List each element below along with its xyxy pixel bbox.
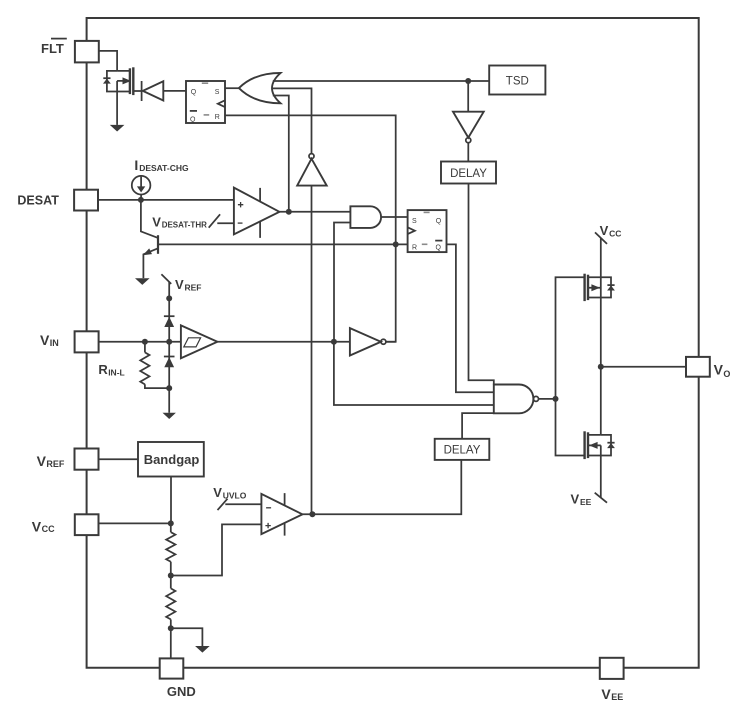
svg-text:O: O [723, 369, 730, 379]
svg-text:GND: GND [167, 684, 196, 699]
node reset junction [393, 241, 399, 247]
IC boundary box [87, 18, 699, 668]
wire DELAY2 to NAND input 4 [462, 413, 494, 439]
svg-text:DELAY: DELAY [444, 445, 481, 457]
comparator U4 DESAT [234, 188, 280, 235]
comparator U4 plus sign [238, 202, 243, 207]
wire comparator U8 output to DELAY2 [302, 460, 461, 514]
svg-text:CC: CC [42, 524, 55, 534]
node VIN signal junction [331, 339, 337, 345]
node NAND output junction [553, 396, 559, 402]
svg-text:TSD: TSD [506, 76, 529, 88]
comparator U4 minus sign [238, 222, 243, 224]
pin FLT [75, 41, 99, 63]
resistor divider R2 [170, 576, 172, 589]
wire buffer U7 output to reset node [386, 341, 396, 343]
svg-text:V: V [601, 686, 611, 702]
svg-text:V: V [175, 277, 184, 292]
wire AND output to latch U5 S input [381, 216, 408, 218]
node UVLO output junction [309, 511, 315, 517]
svg-text:V: V [152, 215, 161, 230]
node clamp-diode tap [166, 339, 172, 345]
wire UVLO node up to inverter U3 [311, 186, 313, 515]
latch U1 box [186, 81, 225, 123]
svg-text:Q: Q [436, 244, 442, 251]
svg-text:Bandgap: Bandgap [144, 452, 200, 467]
node clamp chain top [166, 295, 172, 301]
pin GND [160, 658, 184, 678]
wire TSD node to TSD block [468, 80, 489, 82]
wire driver node to upper FET gate [556, 277, 585, 399]
svg-text:V: V [213, 485, 222, 500]
wire driver node to lower FET gate [556, 399, 585, 456]
node DESAT junction [138, 197, 144, 203]
wire OR input middle from inverter U3 [273, 88, 312, 153]
wire BJT base to latch U5 R input [158, 243, 408, 245]
svg-text:IN-L: IN-L [108, 368, 125, 378]
latch U1 tiny bottom mark [204, 114, 210, 116]
pin VIN [75, 331, 99, 352]
svg-text:IN: IN [50, 338, 59, 348]
wire latch U1 R input to reset node [225, 115, 396, 244]
latch U1 clock marker [218, 100, 225, 107]
node output junction [598, 364, 604, 370]
wire bandgap to VCC node [170, 477, 172, 524]
svg-text:V: V [37, 453, 47, 469]
wire fault MOSFET source to ground [116, 92, 118, 125]
comparator U8 UVLO [261, 494, 302, 534]
slash V_DESAT-THR source [209, 214, 220, 227]
block DELAY2 [435, 439, 490, 460]
transistor lower output MOSFET [588, 435, 601, 456]
svg-text:DESAT-THR: DESAT-THR [162, 221, 207, 230]
wire DELAY1 to NAND input 1 [469, 184, 494, 385]
wire output node to VO pin [601, 366, 686, 368]
pin VEE bottom [600, 658, 624, 679]
wire AND input 2 from VIN node [334, 223, 350, 342]
pin DESAT [74, 190, 98, 211]
svg-text:CC: CC [609, 228, 621, 238]
wire divider mid to UVLO + input [171, 524, 262, 575]
and-gate DESAT blanking [350, 206, 381, 228]
wire VIN pin to schmitt buffer U6 [99, 341, 181, 343]
ground under clamp chain [163, 413, 176, 419]
current source I_DESAT-CHG [132, 176, 151, 195]
svg-text:R: R [412, 244, 417, 251]
wire OR input bottom from comparator node [273, 96, 289, 212]
comparator U8 plus sign [265, 523, 270, 528]
wire inverter U2 to DELAY1 [467, 143, 469, 162]
svg-text:REF: REF [46, 459, 65, 469]
pin VCC [75, 514, 99, 535]
wire latch U5 Qbar to NAND input 2 [447, 244, 494, 392]
svg-text:V: V [714, 362, 724, 378]
wire OR input top to TSD node [273, 80, 468, 82]
block TSD [489, 66, 545, 95]
wire TSD node down to inverter U2 [467, 81, 469, 112]
svg-text:S: S [412, 218, 417, 225]
svg-text:S: S [215, 89, 220, 96]
inverter U3 (points up) [297, 159, 327, 186]
latch U5 clock marker [408, 227, 415, 234]
transistor fault-output MOSFET [117, 71, 130, 92]
svg-text:R: R [215, 114, 220, 121]
svg-text:Q: Q [436, 218, 442, 225]
diode clamp D2 (to VREF) [164, 315, 175, 317]
wire divider bottom to ground stub [171, 628, 203, 646]
svg-text:I: I [134, 157, 138, 173]
pin VREF [75, 449, 99, 470]
block bandgap [138, 442, 204, 477]
node comparator output junction [286, 209, 292, 215]
svg-text:V: V [600, 223, 609, 238]
wire VREF pin to bandgap [99, 458, 139, 460]
ground under BJT emitter [135, 278, 150, 285]
slash V_CC supply [595, 232, 607, 244]
wire VCC pin to divider [99, 522, 171, 524]
svg-text:R: R [98, 362, 108, 377]
wire upper FET source to lower FET drain [600, 298, 602, 435]
ground under fault MOSFET [110, 125, 125, 132]
latch U1 label Qbar [190, 110, 197, 112]
wire VIN node down to NAND input 3 [334, 342, 494, 405]
svg-text:Q: Q [191, 89, 197, 96]
node R_IN-L tap [142, 339, 148, 345]
diode clamp D3 (from ground) [164, 356, 175, 358]
svg-text:DESAT-CHG: DESAT-CHG [139, 163, 189, 173]
resistor divider R1 [170, 523, 172, 532]
wire V_REF switch to clamp chain [168, 282, 170, 298]
transistor Q1 DESAT discharge BJT [141, 200, 158, 238]
wire lower FET source to V_EE [600, 456, 602, 498]
buffer U7 inverting [350, 328, 381, 355]
latch U5 label Qbar [435, 240, 442, 242]
node clamp chain bottom [166, 385, 172, 391]
wire V_DESAT-THR to comparator U4 - input [217, 222, 234, 224]
wire comparator U4 output to AND gate [279, 211, 350, 213]
svg-text:EE: EE [611, 692, 623, 702]
comparator U8 minus sign [266, 507, 271, 509]
wire DESAT pin to comparator U4 + input [98, 199, 234, 201]
wire FLT pin to fault MOSFET drain [99, 51, 117, 71]
wire V_UVLO to comparator U8 - input [225, 503, 261, 505]
wire fault MOSFET gate to diode cathode [133, 90, 141, 92]
schmitt buffer U6 [181, 325, 218, 358]
diode gate-drive (pointing left) [141, 81, 143, 101]
wire reset node down to buffer U7 output [386, 244, 396, 341]
node divider mid junction [168, 573, 174, 579]
or-gate fault OR [239, 73, 281, 103]
slash V_EE supply [595, 493, 607, 503]
node VCC junction [168, 520, 174, 526]
wire NAND output to driver node [539, 398, 556, 400]
svg-text:REF: REF [185, 282, 202, 292]
latch U1 tiny top mark [202, 82, 208, 84]
latch U5 tiny bottom mark [422, 243, 428, 245]
transistor upper output MOSFET [588, 277, 601, 297]
node TSD junction [465, 78, 471, 84]
svg-text:DELAY: DELAY [450, 168, 487, 180]
node divider bottom junction [168, 625, 174, 631]
wire diode to latch U1 Q output [163, 90, 186, 92]
latch U5 box [408, 210, 447, 252]
svg-text:V: V [571, 491, 580, 506]
svg-text:Q: Q [190, 116, 196, 123]
nand-gate output control [494, 385, 534, 414]
inverter U2 (points down) [453, 112, 484, 138]
ground at divider bottom [195, 646, 210, 653]
latch U5 tiny top mark [424, 211, 430, 213]
svg-text:V: V [32, 518, 42, 534]
svg-text:FLT: FLT [41, 41, 64, 56]
wire clamp chain [168, 298, 170, 412]
slash V_UVLO source [218, 499, 228, 510]
wire divider bottom to GND pin [170, 628, 172, 658]
svg-text:V: V [40, 332, 50, 348]
wire latch U1 S input from OR gate output [225, 87, 239, 89]
svg-text:DESAT: DESAT [17, 193, 59, 207]
wire V_CC to upper FET drain [600, 238, 602, 277]
svg-text:EE: EE [580, 497, 592, 507]
wire schmitt U6 output to buffer U7 [217, 341, 350, 343]
pin VO [686, 357, 710, 377]
resistor R_IN-L [144, 342, 146, 353]
block DELAY1 [441, 162, 496, 184]
slash V_REF source switch [161, 274, 171, 284]
